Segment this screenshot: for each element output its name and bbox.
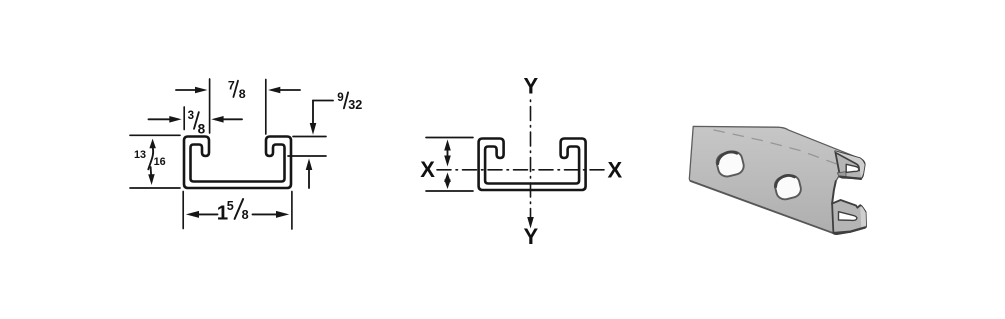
bottom wall thick lower edge — [834, 227, 865, 233]
svg-text:Y: Y — [524, 73, 539, 98]
svg-text:16: 16 — [154, 156, 166, 168]
hole 2 (right slot) — [773, 173, 803, 201]
svg-text:32: 32 — [348, 98, 362, 112]
svg-text:X: X — [608, 158, 623, 183]
13/16 down arrow — [150, 167, 153, 178]
svg-text:13: 13 — [134, 149, 146, 161]
1-5/8 dimension left arrow — [186, 211, 199, 218]
tick x=185 (3/8 dimension) — [183, 107, 185, 130]
7/8 left arrow — [176, 89, 203, 91]
notch shadow under lip left — [837, 172, 846, 178]
1-5/8 right extension line — [291, 192, 293, 230]
middle top extension line — [426, 137, 473, 139]
near top edge line of end cap — [836, 153, 860, 171]
svg-text:9: 9 — [337, 91, 344, 104]
svg-text:7: 7 — [228, 79, 235, 93]
right extension line at channel top — [293, 136, 326, 138]
1-5/8 dimension right arrow — [253, 213, 282, 215]
body bottom edge emphasis — [691, 181, 834, 233]
7/8 right arrow — [272, 89, 300, 91]
top lip slot (white wedge) — [846, 164, 859, 172]
svg-text:8: 8 — [198, 122, 206, 137]
svg-text:X: X — [420, 157, 435, 182]
9/32 up arrow — [308, 167, 310, 188]
1-5/8 left extension line — [182, 192, 184, 229]
3D body silhouette — [689, 126, 866, 234]
middle bottom extension line — [426, 190, 473, 192]
hole 1 (left slot) — [715, 149, 746, 178]
Y axis centerline (vertical dash-dot) — [530, 100, 532, 220]
bottom lip slot (white wedge) — [839, 212, 857, 221]
X axis centerline (horizontal dash-dot) — [437, 169, 604, 171]
web band right edge (thick) — [832, 181, 836, 203]
svg-text:3: 3 — [188, 109, 195, 122]
3/8 left arrow — [149, 118, 178, 120]
top lip light top band — [835, 151, 863, 167]
3/8 right arrow — [216, 118, 243, 120]
extension line x=266 (right edge of 7/8 opening) — [265, 80, 267, 135]
svg-text:8: 8 — [242, 208, 249, 222]
svg-text:Y: Y — [524, 224, 539, 249]
bottom lip block right light face — [860, 206, 866, 229]
channel profile (middle) — [479, 139, 586, 191]
bottom lip block (end cap) — [832, 200, 866, 234]
13/16 up arrow — [149, 139, 156, 149]
Y axis down arrowhead — [527, 217, 534, 229]
channel profile (strut cross-section) — [184, 137, 291, 189]
svg-text:5: 5 — [227, 199, 234, 213]
top extension line (13/16) — [130, 134, 180, 136]
upper double arrow — [444, 140, 451, 151]
extension line x=209 (left edge of 7/8 opening) — [209, 79, 211, 133]
face dashed hidden line — [714, 130, 838, 165]
top lip light right face — [859, 162, 865, 178]
bottom extension line (13/16) — [130, 187, 180, 189]
lower double arrow — [444, 173, 451, 183]
right extension line at lip bottom — [288, 155, 326, 157]
top lip bottom thick edge — [840, 177, 861, 179]
svg-text:8: 8 — [239, 87, 246, 101]
top lip block (end cap) — [835, 151, 865, 178]
